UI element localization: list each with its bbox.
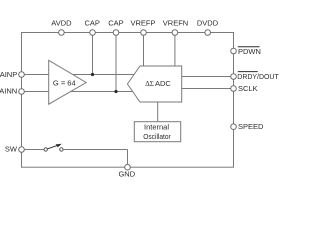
svg-text:DVDD: DVDD — [197, 19, 219, 28]
svg-text:Internal: Internal — [144, 122, 169, 131]
svg-text:Oscillator: Oscillator — [143, 132, 171, 141]
svg-text:CAP: CAP — [84, 19, 99, 28]
svg-text:PDWN: PDWN — [238, 47, 261, 56]
svg-text:VREFP: VREFP — [130, 19, 155, 28]
svg-text:AINN: AINN — [0, 87, 17, 96]
svg-text:AINP: AINP — [0, 70, 17, 79]
svg-text:GND: GND — [118, 170, 135, 179]
svg-text:DRDY/DOUT: DRDY/DOUT — [237, 72, 279, 81]
svg-text:AVDD: AVDD — [51, 19, 72, 28]
svg-text:VREFN: VREFN — [163, 19, 188, 28]
svg-text:CAP: CAP — [108, 19, 123, 28]
svg-text:ΔΣADC: ΔΣADC — [145, 79, 171, 88]
svg-text:G = 64: G = 64 — [53, 79, 76, 88]
svg-text:SPEED: SPEED — [238, 122, 264, 131]
svg-text:SCLK: SCLK — [238, 84, 258, 93]
svg-text:SW: SW — [5, 145, 18, 154]
